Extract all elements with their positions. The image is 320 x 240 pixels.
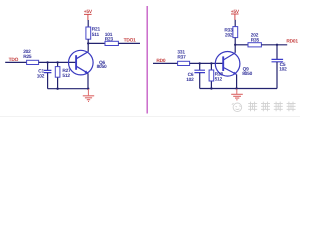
bottom wire right [200,88,277,90]
svg-text:102: 102 [279,67,287,73]
svg-text:R25: R25 [23,54,32,60]
svg-text:R35: R35 [251,38,260,44]
wire R21 to collector [87,39,89,52]
svg-text:102: 102 [37,73,45,79]
junction R27 bottom [56,88,58,90]
resistor R38 [209,63,223,88]
junction emitter ground right [235,87,237,89]
resistor R23 [105,32,119,45]
wire R37 to base [190,62,224,64]
resistor R27 [55,62,71,88]
svg-text:202: 202 [225,32,233,38]
svg-text:8050: 8050 [97,64,107,70]
resistor R37 [177,50,189,66]
capacitor C5 [272,45,288,89]
capacitor C6 [186,63,205,88]
junction C1 top [46,61,48,63]
wire R23 to TDO1 [118,42,140,44]
svg-text:512: 512 [62,73,70,79]
power +5V right [231,9,240,20]
transistor Q9 [215,52,252,77]
wire power to R33 [234,20,236,27]
wire emitter down [87,73,89,88]
resistor R21 [86,27,101,40]
svg-text:512: 512 [215,77,223,83]
svg-text:R23: R23 [105,36,114,42]
wire R35 to RD01 [261,44,287,46]
bottom wire left [48,88,89,90]
wire junction to R35 [235,44,248,46]
wire R25 to base [39,61,76,63]
wire power to R21 [87,20,89,27]
junction emitter ground [87,88,89,90]
wire R33 to collector [234,38,236,53]
resistor R33 [224,27,237,39]
power +5V left [84,9,93,20]
wire emitter down right [236,75,238,89]
svg-text:8050: 8050 [242,71,252,77]
bottom faint edge [0,116,300,118]
ground right [231,89,243,100]
svg-text:RD01: RD01 [286,38,298,44]
junction R27 top [56,61,58,63]
svg-text:R37: R37 [177,55,186,61]
svg-text:511: 511 [92,32,100,38]
divider line [146,6,148,114]
svg-text:TDO1: TDO1 [124,38,137,44]
resistor R25 [23,49,38,64]
junction R38 top [210,62,212,64]
node collector junction right [234,44,236,46]
node collector junction left [87,42,89,44]
svg-text:R21: R21 [92,27,101,33]
junction R38 bottom [210,87,212,89]
junction C6 top [199,62,201,64]
transistor Q6 [69,50,108,75]
capacitor C1 [37,62,52,88]
wire junction to R23 [88,42,105,44]
junction C5 top [276,44,278,46]
watermark text [248,102,295,112]
ground left [83,89,94,101]
wire TDO to R25 [5,61,26,63]
svg-text:102: 102 [186,77,194,83]
watermark logo [232,103,242,112]
resistor R35 [248,33,261,47]
wire RD0 to R37 [153,62,178,64]
